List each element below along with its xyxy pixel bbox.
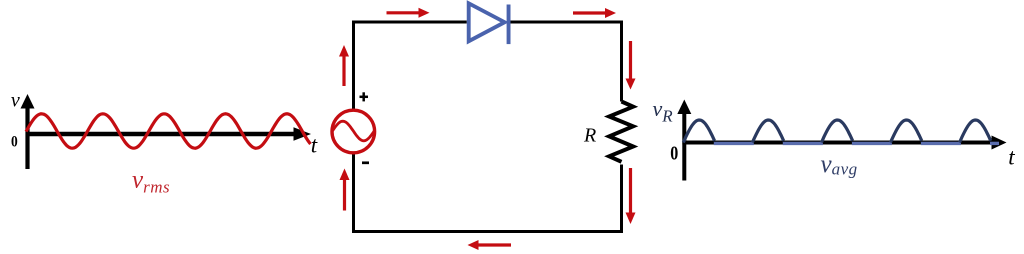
resistor R	[609, 102, 633, 162]
current arrow left-lower (up)	[340, 169, 350, 211]
current arrow top-left	[387, 8, 430, 18]
rectified half-wave humps	[683, 120, 990, 143]
wire bottom	[354, 153, 622, 231]
current arrow left-upper (up)	[339, 45, 349, 86]
current arrow right-lower (down)	[626, 168, 636, 224]
minus label	[362, 161, 369, 164]
current arrow bottom (left)	[468, 240, 512, 250]
svg-text:v: v	[11, 90, 20, 112]
right graph v axis	[677, 100, 691, 181]
diode D1	[469, 3, 511, 44]
wire top left segment	[354, 22, 467, 111]
left graph t axis	[26, 127, 311, 141]
svg-text:vrms: vrms	[132, 167, 170, 197]
svg-text:t: t	[311, 133, 318, 158]
svg-text:t: t	[1008, 145, 1015, 170]
svg-text:R: R	[583, 125, 596, 147]
current arrow right-upper (down)	[626, 41, 636, 90]
wire top right segment	[511, 22, 622, 102]
right graph t axis	[682, 136, 1006, 150]
rectified zero-line segments	[714, 142, 999, 145]
svg-text:0: 0	[670, 142, 678, 164]
current arrow top-right	[573, 8, 616, 18]
AC source	[332, 110, 375, 153]
sine wave input	[26, 114, 311, 148]
svg-text:vR: vR	[653, 96, 674, 126]
left graph v axis	[21, 94, 35, 169]
svg-text:0: 0	[11, 133, 18, 150]
svg-text:vavg: vavg	[821, 151, 858, 179]
plus label	[360, 92, 369, 101]
